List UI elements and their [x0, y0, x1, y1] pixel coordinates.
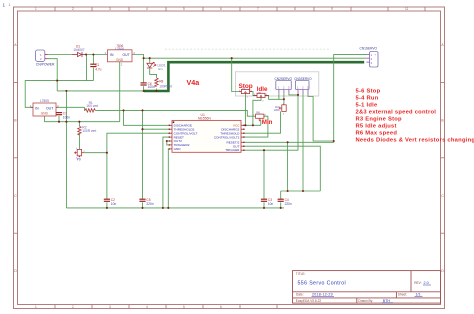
wire: bottom ground rail	[66, 207, 284, 209]
wire: C4 top lead	[280, 191, 282, 199]
svg-text:REV:: REV:	[414, 281, 421, 285]
title block	[293, 271, 441, 304]
frame row letters	[14, 43, 444, 273]
wire: RESET tie down to bottom rail	[163, 137, 169, 208]
wire: stop pot feed from 6V	[232, 58, 239, 91]
wire: 7806 GND down	[119, 62, 121, 122]
wire: RESET2 branch down to C4 horizontal	[287, 142, 289, 191]
pale dashed guide line	[165, 48, 331, 50]
wire: idle wiper down	[253, 98, 261, 126]
svg-text:CONTROL/VOLT2: CONTROL/VOLT2	[214, 135, 240, 139]
pot pin numbers R3	[76, 90, 285, 159]
wire: C6 branch	[143, 58, 145, 91]
IC U1 NE556N	[169, 113, 245, 153]
svg-text:1N4007: 1N4007	[73, 48, 84, 52]
svg-text:R6: R6	[256, 111, 260, 115]
wire: CN2 pin stubs down	[279, 93, 284, 104]
wire: 7805 GND down	[43, 116, 45, 122]
svg-text:CN3SERVO: CN3SERVO	[294, 77, 312, 81]
svg-text:5: 5	[183, 7, 185, 11]
regulator U2 7806	[105, 44, 136, 67]
resistor R2	[78, 125, 97, 135]
svg-text:100R vert: 100R vert	[82, 129, 96, 133]
wire: C2 top gap	[106, 198, 108, 200]
svg-text:D: D	[441, 269, 444, 273]
svg-text:2.0: 2.0	[424, 281, 429, 285]
resistor R1	[85, 101, 98, 112]
wire: P9 wiper to C2 vertical and U1 CONTROL/VOLT	[84, 152, 107, 154]
wire: CN3 pin3 over to servo net	[308, 94, 334, 141]
wire: post-diode branch down to 12V line	[86, 55, 88, 81]
wire: stop pot to idle pot	[250, 92, 257, 96]
svg-text:GND: GND	[41, 112, 49, 116]
svg-text:IN: IN	[110, 53, 114, 57]
wire: V4a thick net	[144, 62, 364, 91]
svg-text:L7805: L7805	[40, 99, 49, 103]
svg-text:2: 2	[72, 305, 74, 309]
svg-text:TITLE:: TITLE:	[296, 272, 306, 276]
svg-text:L7806: L7806	[115, 47, 124, 51]
svg-text:CN2SERVO: CN2SERVO	[275, 77, 293, 81]
potentiometer R3 Stop	[239, 87, 252, 94]
connector CN3SERVO	[294, 77, 312, 94]
svg-text:V4a: V4a	[187, 78, 201, 87]
wire: CN3 pin2 down to C4 node	[302, 94, 304, 191]
svg-text:4: 4	[146, 7, 148, 11]
frame ruler ticks top	[55, 7, 425, 11]
svg-text:Grn: Grn	[158, 67, 163, 71]
wire: 7806 OUT 6V rail to servo pin2	[132, 55, 366, 59]
svg-text:1K0 vert: 1K0 vert	[86, 104, 98, 108]
LED LED1	[147, 62, 166, 71]
svg-text:CN1SERVO: CN1SERVO	[360, 47, 378, 51]
svg-text:1: 1	[9, 3, 11, 7]
svg-text:100K: 100K	[273, 108, 280, 112]
wire: THRESHOLD2 feed and C5 vertical	[142, 110, 144, 199]
svg-text:5-1 Idle: 5-1 Idle	[356, 103, 379, 109]
wire: R2 top	[78, 122, 80, 127]
wire: OUT2 to TRIGGER2 link	[167, 141, 170, 145]
svg-text:D: D	[14, 269, 17, 273]
wire: servo pin1 long vertical to RESET2 row	[244, 54, 367, 142]
regulator U3 7805	[30, 99, 59, 116]
wire: R6 wiper down	[260, 121, 262, 126]
wire: CN3 pin1 down to TRIGGER row	[244, 95, 298, 150]
connector CN1SERVO	[360, 47, 379, 67]
svg-text:R8: R8	[159, 80, 163, 84]
svg-text:NE556N: NE556N	[198, 116, 211, 120]
svg-text:OUT: OUT	[46, 106, 53, 110]
svg-text:TRIGGER: TRIGGER	[225, 148, 240, 152]
wire: VCC stub	[243, 124, 245, 126]
frame ruler ticks left and right	[14, 82, 445, 233]
capacitor C2	[104, 198, 117, 206]
frame ruler ticks bottom	[55, 305, 277, 309]
svg-text:P9: P9	[77, 158, 81, 162]
wire: C2 bottom	[106, 202, 108, 208]
svg-text:Drawn By:: Drawn By:	[358, 299, 373, 303]
svg-text:OUT: OUT	[123, 53, 130, 57]
svg-text:CN/POWER: CN/POWER	[36, 62, 55, 66]
svg-text:1: 1	[35, 7, 37, 11]
wire: C4 bottom	[280, 202, 282, 208]
wire: LED branch	[149, 58, 151, 63]
svg-text:Stop: Stop	[239, 83, 253, 90]
wire: C3 vertical and bottom	[263, 150, 265, 208]
wire: GND rail under regulators	[44, 121, 119, 123]
wire: VCC row to R6 wiper	[244, 124, 261, 126]
svg-text:C1: C1	[95, 63, 99, 67]
svg-text:Idle: Idle	[257, 86, 268, 93]
svg-text:IN: IN	[35, 106, 39, 110]
svg-text:3: 3	[109, 7, 111, 11]
frame column numbers	[35, 7, 409, 309]
svg-text:EasyEDA V5.8.22: EasyEDA V5.8.22	[296, 299, 322, 303]
capacitor C1	[90, 63, 101, 71]
connector CN2SERVO	[275, 77, 293, 93]
svg-text:10n: 10n	[111, 202, 117, 206]
svg-text:100n: 100n	[148, 85, 155, 89]
wire: THRESHOLD row to R4 bottom	[244, 111, 281, 133]
capacitor C4	[278, 198, 292, 206]
svg-text:100n: 100n	[63, 115, 70, 119]
svg-text:7: 7	[257, 7, 259, 11]
wire: V4a rail thin part	[57, 90, 145, 92]
wire: R8 bottom to V4a rail	[156, 89, 158, 91]
wire: R2 bottom to pot P9	[78, 134, 80, 150]
wire: DISCHARGE feed vertical	[124, 110, 170, 125]
wire: R6 left lead	[252, 115, 256, 117]
wire: CN2 pin3 to CN3 pin1 row	[289, 93, 298, 95]
svg-text:1: 1	[35, 305, 37, 309]
potentiometer P9	[75, 149, 85, 161]
svg-text:5-4 Run: 5-4 Run	[356, 96, 379, 102]
wire: R6 right lead	[264, 115, 268, 117]
svg-text:GND: GND	[174, 147, 182, 151]
wire: power pin1 to D1 to 7806 IN	[48, 54, 108, 56]
svg-text:1: 1	[3, 3, 6, 8]
svg-text:2&3 external speed control: 2&3 external speed control	[356, 110, 437, 116]
potentiometer R4	[273, 105, 286, 112]
svg-text:Needs Diodes & Vert resistors: Needs Diodes & Vert resistors changing	[356, 138, 474, 144]
potentiometer R6 Min	[256, 111, 264, 121]
svg-text:100Rvert: 100Rvert	[159, 84, 172, 88]
wire: U1 GND down	[168, 149, 169, 208]
wire: idle right to R4 top	[265, 95, 284, 99]
svg-text:C: C	[14, 194, 17, 198]
svg-text:3: 3	[109, 305, 111, 309]
grey group box	[235, 72, 318, 96]
wire: 7805 OUT 5V feed line	[59, 106, 85, 108]
svg-text:4: 4	[146, 305, 148, 309]
svg-text:11: 11	[405, 7, 409, 11]
svg-text:Min: Min	[262, 119, 273, 126]
svg-text:R6 Max speed: R6 Max speed	[356, 131, 398, 137]
wire: C5 bottom	[142, 202, 144, 208]
capacitor C3	[261, 198, 274, 206]
wire: R1 left lead link	[84, 107, 87, 110]
svg-text:5: 5	[183, 305, 185, 309]
svg-text:GND: GND	[116, 58, 124, 62]
wire: power pin2 down to V4a rail	[48, 59, 57, 91]
capacitor C5	[139, 198, 153, 206]
svg-text:BTH: BTH	[383, 299, 391, 303]
wire: C7 branch	[58, 116, 60, 122]
diode D1	[72, 45, 86, 58]
wire: C4 node horizontal	[281, 190, 321, 192]
svg-text:6: 6	[220, 7, 222, 11]
resistor R8	[155, 78, 172, 89]
wire: CONTROL/VOLT2 row to R6 right	[244, 116, 268, 137]
capacitor C7	[56, 112, 70, 120]
wire: 12V feed to 7805 IN	[25, 81, 93, 108]
red annotation notes	[356, 89, 474, 144]
svg-text:8: 8	[294, 7, 296, 11]
svg-text:6: 6	[220, 305, 222, 309]
svg-text:2: 2	[72, 7, 74, 11]
wire: stop wiper down to VCC row	[244, 94, 246, 125]
connector CN/POWER	[36, 50, 55, 66]
svg-text:220n: 220n	[285, 202, 292, 206]
capacitor C6	[141, 82, 155, 89]
svg-text:Date:: Date:	[296, 293, 304, 297]
svg-text:5-6 Stop: 5-6 Stop	[356, 89, 381, 95]
svg-text:556 Servo Control: 556 Servo Control	[298, 281, 347, 287]
potentiometer R5 Idle	[253, 91, 268, 98]
wire: OUT row to right vertical	[244, 146, 320, 191]
wire: C1 branch vertical	[92, 55, 94, 81]
wire: LED cathode to R8	[150, 69, 157, 78]
svg-text:4.7u: 4.7u	[95, 67, 101, 71]
svg-text:R3 Engine Stop: R3 Engine Stop	[356, 117, 403, 123]
svg-text:220n: 220n	[146, 202, 153, 206]
svg-text:C: C	[441, 194, 444, 198]
svg-text:2018-12-29: 2018-12-29	[312, 293, 333, 297]
svg-text:Sheet:: Sheet:	[398, 293, 407, 297]
wire: left long vertical to bottom rail	[65, 91, 67, 208]
svg-text:10n: 10n	[268, 202, 274, 206]
svg-text:9: 9	[331, 7, 333, 11]
svg-text:1/1: 1/1	[416, 293, 421, 297]
svg-text:R5 Idle adjust: R5 Idle adjust	[356, 124, 397, 130]
